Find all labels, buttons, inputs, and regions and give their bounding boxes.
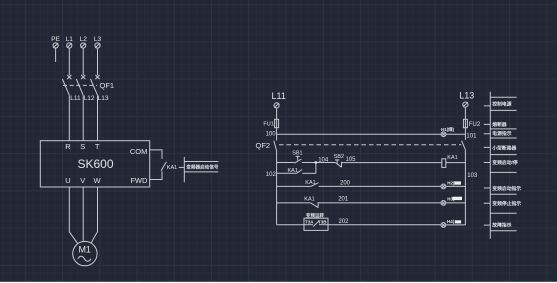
pushbutton SB1 (294, 156, 301, 163)
svg-text:FU1: FU1 (263, 122, 273, 128)
breaker QF2 right blade (462, 141, 466, 150)
svg-text:S: S (80, 142, 85, 151)
svg-text:M1: M1 (78, 244, 91, 254)
svg-text:L2: L2 (80, 36, 88, 43)
wire coil to right rail (446, 162, 466, 164)
svg-text:W: W (93, 176, 101, 185)
wire rung3 to lamp H3 (318, 202, 441, 204)
svg-text:L1: L1 (66, 36, 74, 43)
wire contact to FWD (150, 171, 162, 179)
svg-text:KA1: KA1 (287, 168, 297, 174)
wire junction drop (315, 163, 317, 174)
svg-text:L11: L11 (272, 91, 286, 101)
lamp H1 (441, 132, 446, 137)
svg-text:H1(绿): H1(绿) (441, 126, 455, 133)
svg-text:T3A: T3A (305, 220, 314, 225)
svg-text:QF2: QF2 (256, 141, 271, 150)
legend ticks (484, 106, 491, 225)
svg-text:QF1: QF1 (100, 81, 115, 90)
svg-text:T: T (95, 142, 100, 151)
terminal L1 (67, 43, 72, 48)
contact KA1 blade (COM-FWD) (161, 162, 166, 171)
label H3 (447, 196, 462, 201)
svg-text:H4(: H4( (447, 219, 455, 224)
svg-text:FU2: FU2 (469, 122, 481, 128)
wire L1 to QF1 (68, 48, 70, 75)
svg-text:T3B: T3B (318, 220, 327, 225)
svg-text:101: 101 (466, 134, 477, 140)
fuse FU1 (275, 119, 279, 127)
wire hold branch left (277, 172, 297, 174)
svg-text:FWD: FWD (130, 176, 148, 185)
svg-text:L13: L13 (459, 90, 474, 100)
svg-text:103: 103 (467, 173, 478, 179)
svg-text:100: 100 (266, 132, 277, 138)
svg-text:PE: PE (51, 36, 60, 43)
wire SB2 to coil (342, 162, 442, 164)
label H4 (447, 219, 461, 224)
wire L12 (82, 95, 84, 141)
svg-text:202: 202 (338, 219, 349, 225)
wire W to motor (91, 187, 97, 243)
wire L2 to QF1 (82, 48, 84, 75)
wire rung4 to lamp H4 (328, 224, 441, 226)
wire left rail upper (276, 108, 278, 140)
control terminal L11 (274, 103, 279, 108)
svg-text:H2(: H2( (447, 181, 455, 186)
svg-text:200: 200 (340, 180, 351, 186)
terminal L2 (81, 43, 86, 48)
lamp H2 (441, 184, 446, 189)
label H2 (447, 181, 461, 186)
fuse FU2 (463, 119, 467, 127)
wire rung2 to lamp H2 (319, 185, 441, 187)
contact KA1 rung3 blade (311, 202, 318, 207)
wire rung3 left (277, 202, 311, 204)
wire L11 (68, 95, 70, 141)
terminal L3 (95, 43, 100, 48)
legend separators (490, 97, 516, 231)
svg-text:R: R (65, 142, 71, 151)
lamp H3 (441, 201, 446, 206)
svg-text:V: V (80, 176, 85, 185)
svg-text:105: 105 (345, 157, 356, 163)
wire rung4 left (277, 224, 304, 226)
control terminal L13 (463, 102, 468, 107)
svg-text:L3: L3 (94, 36, 102, 43)
wire L13m (97, 95, 99, 141)
wire V to motor (82, 187, 84, 241)
wire rung2 left (277, 185, 311, 187)
svg-text:SB1: SB1 (292, 150, 302, 156)
breaker QF1 linkage (63, 84, 97, 86)
svg-text:201: 201 (338, 197, 349, 203)
wire lamp H4 to right rail (446, 224, 466, 226)
contact KA1 rung2 blade (311, 183, 319, 187)
breaker QF1 pole 1 contact (62, 75, 71, 95)
terminal PE (53, 43, 58, 48)
wire rung1 left (277, 162, 295, 164)
wire U to motor (69, 187, 77, 244)
breaker QF2 linkage (279, 144, 461, 146)
svg-text:KA1: KA1 (304, 197, 314, 203)
svg-text:102: 102 (266, 172, 277, 178)
svg-text:104: 104 (318, 157, 329, 163)
svg-text:SK600: SK600 (77, 157, 113, 171)
wire PE stub (55, 48, 57, 62)
contact T3A-T3B blade (304, 221, 328, 227)
motor M1 circle (73, 241, 97, 265)
wire L3 to QF1 (97, 48, 99, 75)
motor M1 sine (78, 256, 91, 261)
wire SB1 to junction (302, 162, 336, 164)
node junction 104 (315, 161, 317, 163)
svg-text:变频运转: 变频运转 (306, 212, 324, 219)
signal flag leader (179, 166, 184, 168)
breaker QF2 left blade (274, 141, 277, 151)
svg-text:U: U (65, 176, 70, 185)
wire left rail lower (276, 150, 278, 224)
svg-text:KA1: KA1 (447, 155, 457, 161)
wire node 100 to lamp H1 (277, 133, 442, 135)
svg-text:KA1: KA1 (167, 165, 177, 171)
svg-text:SB2: SB2 (334, 154, 344, 160)
svg-text:COM: COM (130, 147, 148, 156)
contact KA1 hold blade (297, 170, 303, 174)
svg-text:L12: L12 (84, 95, 95, 102)
legend rail (489, 92, 491, 239)
pushbutton SB2 (335, 160, 342, 167)
wire right rail upper (464, 107, 466, 139)
svg-text:KA1: KA1 (305, 180, 315, 186)
wire lamp H1 to node 101 (446, 133, 466, 135)
wire right rail lower (464, 149, 466, 225)
breaker QF1 pole 2 contact (76, 75, 85, 95)
wire lamp H2 to right rail (446, 185, 466, 187)
relay output box T3A-T3B (304, 218, 328, 230)
wire hold branch right (302, 172, 316, 174)
wire COM to contact (150, 150, 162, 159)
breaker QF1 pole 3 contact (91, 75, 100, 95)
inverter U1 SK600 box (40, 141, 149, 187)
lamp H4 (441, 223, 446, 228)
svg-text:变频器启动信号: 变频器启动信号 (186, 163, 219, 170)
svg-text:L13: L13 (98, 95, 109, 102)
signal flag (184, 157, 218, 182)
svg-text:L11: L11 (70, 95, 81, 102)
relay coil KA1 (442, 159, 446, 168)
wire lamp H3 to right rail (446, 202, 466, 204)
